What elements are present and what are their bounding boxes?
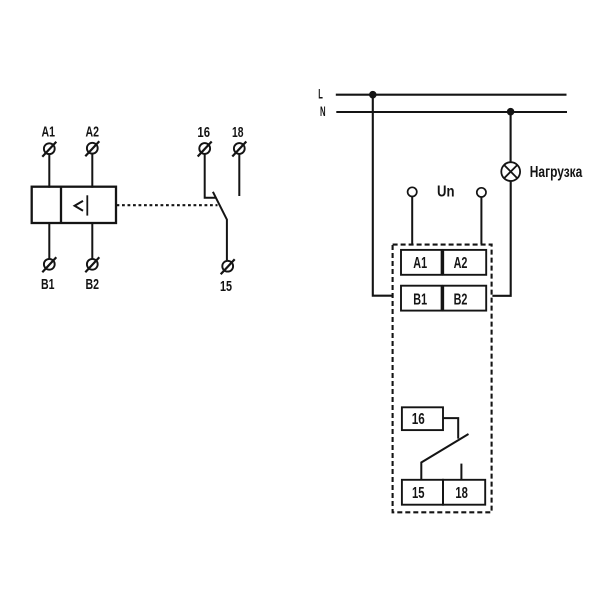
undervoltage symbol in U1 (75, 195, 88, 215)
terminal block 16 (402, 407, 443, 430)
svg-text:A1: A1 (413, 255, 427, 272)
relay moving contact arm (right) (421, 434, 468, 480)
terminal 16 (198, 142, 212, 157)
terminal block 18 (443, 480, 485, 505)
line L (336, 94, 567, 96)
monitoring relay U1 body (32, 187, 116, 223)
relay fixed contact from 16 (443, 418, 459, 439)
line N (336, 111, 567, 113)
wire lamp to device B2 side (492, 181, 510, 296)
svg-text:A2: A2 (454, 255, 468, 272)
terminal 15 (221, 259, 235, 274)
wire 16 to contact pivot (205, 154, 216, 198)
svg-text:15: 15 (220, 278, 232, 295)
svg-text:A2: A2 (86, 125, 100, 141)
terminal B2 (85, 257, 99, 272)
wire A1 to device (48, 154, 50, 188)
terminal label A1 (42, 125, 56, 141)
label N (320, 103, 326, 119)
terminal A2 (85, 141, 99, 156)
svg-text:16: 16 (197, 124, 210, 141)
terminal A1 (42, 142, 56, 157)
wire Un right to A2 (480, 197, 482, 244)
label L (318, 85, 323, 101)
terminal label 18 (232, 124, 244, 141)
relay changeover contact arm (213, 192, 227, 261)
terminal block B2 (443, 286, 486, 311)
terminal label B2 (86, 277, 100, 293)
junction on L (369, 91, 377, 99)
svg-text:B1: B1 (41, 277, 55, 293)
lamp (load) (501, 162, 520, 181)
device enclosure dashed outline (393, 245, 492, 513)
terminal label B1 (41, 277, 55, 293)
svg-text:Un: Un (437, 183, 455, 200)
Un supply terminal left (408, 187, 417, 196)
terminal 18 (232, 142, 246, 157)
svg-text:B2: B2 (86, 277, 100, 293)
terminal block 15 (402, 480, 443, 505)
terminal label 15 (220, 278, 232, 295)
wire L to device B1 side (373, 95, 394, 296)
label Un (437, 183, 455, 200)
terminal block A2 (443, 250, 486, 275)
wire Un left to A1 (411, 197, 413, 245)
wire A2 to device (91, 154, 93, 188)
wire device to B2 (91, 222, 93, 259)
svg-text:18: 18 (232, 124, 244, 141)
terminal block B1 (401, 286, 442, 311)
junction on N (507, 108, 515, 116)
svg-text:B1: B1 (413, 291, 427, 308)
terminal B1 (42, 257, 56, 272)
wire N to lamp (510, 112, 512, 163)
Un supply terminal right (477, 188, 486, 197)
svg-text:Нагрузка: Нагрузка (530, 164, 583, 181)
load label (530, 164, 583, 181)
contact stub 18 (460, 464, 462, 480)
svg-text:N: N (320, 103, 326, 119)
wire 18 stub (238, 154, 240, 196)
svg-text:A1: A1 (42, 125, 56, 141)
terminal block A1 (401, 250, 442, 275)
svg-text:B2: B2 (454, 291, 468, 308)
svg-text:16: 16 (412, 411, 425, 428)
svg-text:L: L (318, 85, 323, 101)
mechanical coupling dotted link (117, 204, 218, 206)
wire device to B1 (48, 222, 50, 259)
terminal label 16 (197, 124, 210, 141)
terminal label A2 (86, 125, 100, 141)
svg-text:15: 15 (412, 485, 425, 502)
svg-text:18: 18 (455, 485, 468, 502)
